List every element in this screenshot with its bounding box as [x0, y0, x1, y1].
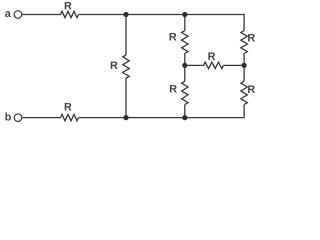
resistor R8 [241, 81, 247, 104]
node A junction dot [123, 12, 128, 17]
wire R4 to node C [184, 54, 186, 66]
node C junction dot [182, 63, 187, 68]
svg-text:R: R [64, 0, 72, 12]
wire R5 down to node E [184, 105, 186, 118]
wire R3 down to node D [125, 78, 127, 117]
svg-text:R: R [64, 102, 72, 114]
resistor R4 [182, 31, 188, 54]
wire node A down to R3 [125, 15, 127, 55]
node E junction dot [182, 115, 187, 120]
resistor R2 [61, 114, 79, 120]
resistor R7 [241, 31, 247, 54]
svg-text:a: a [5, 8, 12, 20]
svg-text:R: R [110, 60, 118, 72]
resistor R5 [182, 81, 188, 104]
wire bottom rail segment to node D [126, 117, 185, 119]
terminal b circle [14, 114, 22, 122]
svg-text:R: R [247, 84, 255, 96]
node B junction dot [182, 12, 187, 17]
svg-text:R: R [247, 33, 255, 45]
wire R6 to right middle node [223, 64, 244, 66]
wire right edge to middle node [243, 54, 245, 66]
wire top rail left segment [22, 14, 60, 16]
wire middle node to R8 [243, 65, 245, 81]
resistor R6 [204, 62, 224, 68]
wire right edge bottom vertical [185, 105, 244, 118]
wire node B down to R4 [184, 15, 186, 31]
svg-text:R: R [208, 51, 216, 63]
terminal a circle [14, 11, 22, 19]
wire bottom rail left segment [22, 117, 60, 119]
node D junction dot [123, 115, 128, 120]
wire bottom rail middle segment [79, 117, 127, 119]
svg-text:b: b [5, 111, 12, 123]
wire top rail middle segment [79, 14, 127, 16]
svg-text:R: R [169, 83, 177, 95]
wire top rail segment to node B [126, 14, 185, 16]
svg-text:R: R [169, 32, 177, 44]
wire node C to R6 [185, 64, 204, 66]
resistor R1 [61, 11, 79, 17]
resistor R3 [123, 55, 129, 78]
wire node C to R5 [184, 65, 186, 81]
node F junction dot [242, 63, 247, 68]
wire top rail right segment [185, 15, 244, 31]
